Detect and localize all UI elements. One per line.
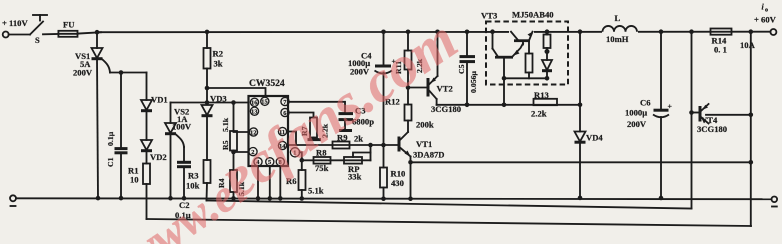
wire bottom main rail (10, 195, 16, 201)
resistor R8 (314, 157, 331, 164)
node junction VD3 top (205, 100, 210, 105)
wire pin1 jog down (300, 152, 302, 160)
wire R2 bottom to IC pin15 (205, 86, 210, 91)
node junction R5 top (231, 100, 236, 105)
potentiometer RP (344, 157, 362, 164)
svg-text:0.1μ: 0.1μ (106, 131, 115, 146)
diode inside module (542, 60, 552, 70)
svg-text:FU: FU (63, 20, 74, 30)
svg-text:o: o (765, 8, 768, 14)
resistor R2 (205, 30, 210, 35)
resistor inside module mid (528, 42, 530, 53)
pin 1 (290, 148, 299, 157)
svg-text:33k: 33k (348, 172, 362, 182)
watermark (decorative) (115, 6, 468, 244)
wire top rail (78, 32, 102, 33)
resistor R10 (380, 168, 387, 188)
capacitor C1 (120, 73, 122, 148)
wire pin14 drive row to VT1 base (288, 144, 398, 146)
node junction VS1 top (95, 30, 100, 35)
pin 6 (281, 108, 289, 116)
svg-text:10A: 10A (740, 40, 756, 50)
capacitor C4 (381, 30, 386, 35)
wire feedback row (302, 159, 371, 161)
diode VD2 (146, 111, 148, 140)
capacitor C5 (465, 30, 470, 35)
svg-text:100V: 100V (172, 122, 192, 132)
svg-text:R3: R3 (188, 171, 199, 181)
transistor module VT3 dashed box (486, 22, 568, 85)
svg-text:S: S (35, 35, 40, 45)
capacitor C2 (183, 147, 185, 162)
svg-text:VD1: VD1 (151, 95, 168, 105)
svg-text:430: 430 (391, 178, 404, 188)
wire return rail 2 (207, 201, 692, 209)
capacitor C3 (339, 112, 354, 115)
svg-text:1000μ: 1000μ (625, 108, 647, 118)
svg-text:C1: C1 (106, 157, 115, 167)
resistor R1 (146, 151, 148, 164)
pin 4 (254, 158, 262, 166)
fuse FU (58, 31, 77, 37)
svg-text:C6: C6 (640, 98, 651, 108)
pin 16 (250, 98, 258, 106)
node rail dots left (96, 196, 101, 201)
svg-text:VD4: VD4 (586, 133, 603, 143)
svg-text:5.1k: 5.1k (221, 117, 230, 132)
wire pin2 stub (234, 151, 249, 153)
svg-text:200V: 200V (73, 68, 93, 78)
resistor R11 (406, 30, 411, 35)
svg-text:+ 60V: + 60V (754, 15, 777, 25)
svg-text:R2: R2 (213, 49, 224, 59)
diode VD4 (578, 29, 583, 34)
pin 13 (250, 107, 258, 115)
wire gate row (110, 72, 147, 74)
pin 11 (278, 127, 286, 135)
svg-text:MJ50AB40: MJ50AB40 (512, 10, 554, 20)
resistor R3 (206, 116, 208, 160)
svg-text:3CG180: 3CG180 (697, 124, 727, 134)
wire row to IC pin16 (171, 102, 249, 104)
svg-text:16: 16 (251, 100, 258, 107)
svg-text:L: L (615, 13, 621, 23)
wire pin11 jog (288, 132, 296, 146)
svg-text:2.2k: 2.2k (531, 109, 547, 119)
transistor VT2 (408, 87, 427, 89)
resistor R7 (310, 118, 317, 138)
resistor R14 (711, 29, 732, 35)
svg-text:+: + (668, 102, 673, 111)
wire pins 4 5 8 to ground rail (257, 166, 259, 198)
resistor R12 (406, 85, 411, 90)
wire pin7 to C3 (288, 102, 345, 113)
pin 15 (261, 97, 269, 105)
inductor L (602, 26, 638, 37)
wire drive row y104.8 (437, 104, 580, 106)
resistor R6 (301, 160, 303, 170)
transistor Q2 inside module (490, 29, 495, 34)
wire pin12 stub (234, 131, 249, 133)
wire switch to fuse (43, 33, 58, 35)
resistor inside module right (545, 29, 550, 34)
svg-text:VD3: VD3 (210, 94, 227, 104)
pin 2 (249, 148, 257, 156)
wire right column (750, 32, 752, 226)
pin 12 (249, 128, 257, 136)
diode VD1 (146, 73, 148, 101)
resistor R13 (534, 99, 558, 105)
svg-text:3k: 3k (214, 59, 223, 69)
svg-text:75k: 75k (315, 163, 329, 173)
node + input terminal (3, 32, 9, 38)
capacitor C6 (659, 29, 664, 34)
wire input to switch (9, 34, 30, 36)
svg-text:10mH: 10mH (606, 34, 629, 44)
svg-text:200V: 200V (627, 119, 647, 129)
resistor R5 (233, 103, 235, 132)
svg-text:5.1k: 5.1k (308, 186, 324, 196)
svg-text:200k: 200k (416, 120, 434, 130)
diode VD3 (202, 105, 213, 115)
transistor VT4 (689, 29, 694, 34)
pin 14 (278, 141, 286, 149)
svg-text:3DA87D: 3DA87D (413, 150, 445, 160)
svg-text:VT3: VT3 (481, 11, 497, 21)
svg-text:VT1: VT1 (416, 139, 432, 149)
svg-text:VT2: VT2 (437, 84, 453, 94)
svg-text:15: 15 (261, 99, 267, 106)
wire Q2 base down and module output (503, 59, 505, 79)
pin 7 (281, 97, 289, 105)
svg-text:13: 13 (251, 109, 257, 116)
svg-text:0. 1: 0. 1 (714, 45, 727, 55)
node output minus (772, 197, 778, 203)
svg-text:CW3524: CW3524 (249, 78, 285, 89)
svg-text:R13: R13 (534, 90, 549, 100)
node junction C1 top (119, 70, 124, 75)
wire current sense row (408, 160, 413, 165)
transistor Q1 inside module (509, 29, 534, 35)
wire bottom return rail 3 (147, 219, 752, 226)
switch S (30, 22, 43, 35)
svg-text:+ 110V: + 110V (2, 18, 28, 28)
pin 5 (266, 158, 274, 166)
svg-text:0.056μ: 0.056μ (469, 70, 478, 93)
wire pin6 to R7 (288, 113, 314, 118)
thyristor VS1 (96, 32, 98, 48)
thyristor VS2 (170, 103, 172, 124)
op-amp U1 CW3524 IC box (249, 96, 289, 166)
pin 8 (276, 158, 284, 166)
svg-text:10: 10 (130, 175, 139, 185)
svg-text:R10: R10 (391, 169, 406, 179)
transistor VT1 (407, 121, 409, 133)
resistor R4 (231, 150, 236, 155)
svg-text:VD2: VD2 (150, 152, 167, 162)
resistor R9 (333, 142, 350, 149)
node output plus (749, 29, 754, 34)
